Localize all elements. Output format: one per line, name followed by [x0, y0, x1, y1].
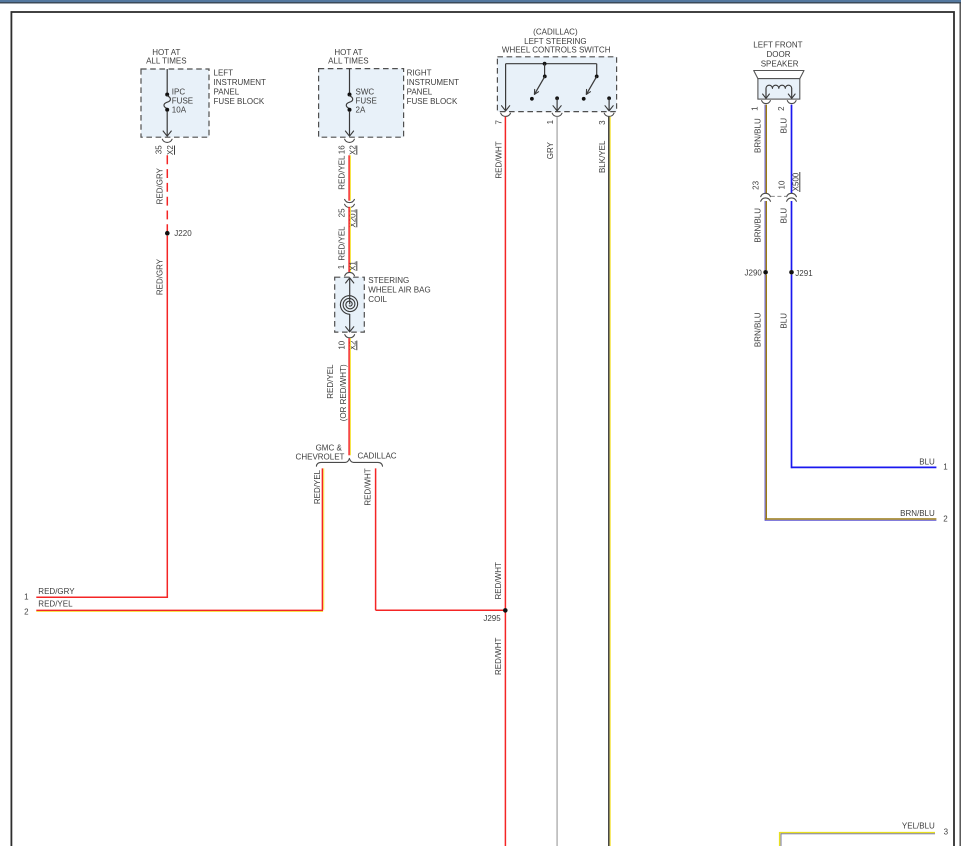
svg-text:ALL TIMES: ALL TIMES	[328, 57, 368, 66]
svg-text:RED/YEL: RED/YEL	[326, 364, 335, 399]
svg-text:IPC: IPC	[172, 88, 186, 97]
arrow into air bag coil box	[346, 278, 354, 283]
switch B blade with arrow	[586, 76, 596, 94]
connector cup above air bag coil box	[345, 272, 355, 275]
wire BRN/BLU segment 1	[764, 105, 766, 194]
svg-text:RED/WHT: RED/WHT	[494, 562, 503, 599]
svg-text:SWC: SWC	[356, 88, 375, 97]
air bag coil box: STEERING WHEEL AIR BAG COIL	[335, 277, 365, 332]
svg-text:2: 2	[24, 608, 29, 617]
speaker voice coil	[766, 85, 792, 88]
arrow out of air bag coil box	[346, 327, 354, 332]
svg-text:RED/YEL: RED/YEL	[338, 155, 347, 190]
wire into fuse F1	[166, 69, 168, 93]
svg-text:BRN/BLU: BRN/BLU	[900, 509, 935, 518]
svg-text:(CADILLAC): (CADILLAC)	[533, 27, 578, 36]
svg-text:GMC &: GMC &	[316, 443, 343, 452]
wire RED/YEL GMC branch vertical	[321, 468, 323, 609]
bus wire inside switch	[506, 63, 597, 65]
svg-text:1: 1	[943, 462, 948, 471]
switch box S1	[497, 57, 616, 112]
wire BLU segment 2	[791, 201, 793, 270]
wire RED/YEL segment 1	[348, 155, 350, 200]
split brace GMC/CADILLAC	[316, 458, 382, 466]
arrow out of switch pin 7	[502, 106, 510, 111]
svg-text:BLU: BLU	[780, 118, 789, 134]
wire RED/YEL segment 2	[348, 207, 350, 272]
fuse F2 SWC FUSE 2A	[348, 93, 352, 97]
coil lead pin 2 with arrow	[791, 88, 793, 97]
right window edge line	[959, 3, 961, 846]
top toolbar bar	[0, 0, 961, 2]
wire BLU segment 1	[791, 105, 793, 194]
svg-text:J291: J291	[795, 269, 813, 278]
fuse block box: LEFT INSTRUMENT PANEL FUSE BLOCK	[141, 69, 209, 137]
wire from fuse to pin 35	[166, 111, 168, 136]
svg-text:CHEVROLET: CHEVROLET	[296, 452, 345, 461]
svg-text:HOT AT: HOT AT	[334, 48, 362, 57]
switch A junction dot on bus	[543, 62, 547, 66]
svg-text:J220: J220	[174, 229, 192, 238]
wire BLU segment 3	[791, 275, 793, 469]
wire RED/YEL (OR RED/WHT) segment	[348, 338, 350, 455]
svg-text:10: 10	[338, 340, 347, 349]
svg-text:RED/GRY: RED/GRY	[38, 587, 75, 596]
svg-text:ALL TIMES: ALL TIMES	[146, 57, 186, 66]
svg-text:DOOR: DOOR	[767, 50, 791, 59]
connector cup below fuse block (right)	[345, 139, 355, 142]
svg-text:16: 16	[338, 145, 347, 154]
junction J295	[503, 608, 508, 613]
svg-text:FUSE: FUSE	[172, 97, 193, 106]
svg-text:35: 35	[154, 145, 163, 154]
switch B contact dot	[582, 97, 586, 101]
wire RED/WHT horizontal to J295	[376, 609, 504, 611]
svg-text:X500: X500	[791, 172, 800, 191]
svg-text:PANEL: PANEL	[407, 88, 433, 97]
svg-text:GRY: GRY	[546, 141, 555, 159]
svg-text:7: 7	[495, 119, 504, 124]
switch A blade with arrow	[534, 76, 544, 94]
svg-text:BRN/BLU: BRN/BLU	[754, 208, 763, 243]
wire BRN/BLU horizontal to net 2	[765, 518, 936, 520]
arrow out of switch pin 3	[605, 106, 613, 111]
svg-text:10: 10	[777, 180, 786, 189]
svg-text:X1: X1	[348, 261, 357, 271]
wire to pin 7	[505, 64, 507, 110]
svg-text:BRN/BLU: BRN/BLU	[754, 312, 763, 347]
svg-text:J295: J295	[483, 614, 501, 623]
arrow out of switch pin 1	[553, 106, 561, 111]
arrow out of fuse block	[163, 131, 171, 136]
svg-text:1: 1	[337, 264, 346, 269]
wire to pin 3	[608, 98, 610, 110]
svg-text:FUSE BLOCK: FUSE BLOCK	[214, 97, 265, 106]
svg-text:RED/YEL: RED/YEL	[38, 600, 73, 609]
svg-text:INSTRUMENT: INSTRUMENT	[407, 78, 460, 87]
connector X500 tie line	[771, 195, 787, 197]
wire to pin 1	[556, 98, 558, 110]
fuse block box: RIGHT INSTRUMENT PANEL FUSE BLOCK	[319, 69, 404, 138]
wire into fuse F2	[349, 69, 351, 93]
wire BLK/YEL from switch pin 3	[608, 117, 610, 846]
svg-text:LEFT: LEFT	[214, 69, 234, 78]
svg-text:X2: X2	[166, 145, 175, 155]
svg-text:2: 2	[777, 106, 786, 111]
svg-text:X2: X2	[348, 145, 357, 155]
svg-text:3: 3	[944, 827, 949, 836]
svg-text:INSTRUMENT: INSTRUMENT	[214, 78, 267, 87]
svg-text:RED/GRY: RED/GRY	[156, 258, 165, 295]
switch A pivot dot	[543, 75, 547, 79]
svg-text:PANEL: PANEL	[214, 88, 240, 97]
svg-text:RIGHT: RIGHT	[407, 69, 432, 78]
wire YEL/BLU horizontal to net 3	[780, 832, 935, 834]
wire RED/GRY horizontal to left edge	[36, 596, 168, 598]
wire RED/WHT from switch pin 7	[504, 117, 506, 846]
connector cups below switch	[501, 113, 511, 116]
svg-text:COIL: COIL	[368, 295, 387, 304]
svg-text:RED/WHT: RED/WHT	[364, 468, 373, 505]
speaker SP1 frame (trapezoid)	[754, 71, 804, 79]
svg-text:1: 1	[24, 593, 29, 602]
wire YEL/BLU from bottom	[779, 832, 781, 846]
svg-text:RED/WHT: RED/WHT	[494, 141, 503, 178]
svg-text:LEFT FRONT: LEFT FRONT	[753, 41, 802, 50]
wire RED/YEL horizontal to left edge	[36, 609, 323, 611]
svg-text:BLU: BLU	[919, 458, 935, 467]
svg-text:RED/GRY: RED/GRY	[156, 167, 165, 204]
fuse F1 IPC FUSE 10A	[165, 93, 169, 97]
svg-text:FUSE BLOCK: FUSE BLOCK	[407, 97, 458, 106]
junction J220	[165, 231, 170, 236]
coil lead pin 1 with arrow	[765, 88, 767, 97]
wire from fuse to pin 16	[349, 111, 351, 136]
in-line connector X500 on BRN/BLU	[761, 193, 771, 196]
switch A stem	[544, 64, 546, 75]
junction J290	[763, 270, 768, 275]
bus corner to switch B	[596, 64, 598, 75]
svg-text:YEL/BLU: YEL/BLU	[902, 821, 935, 830]
svg-text:BLU: BLU	[780, 208, 789, 224]
svg-text:25: 25	[338, 208, 347, 217]
svg-text:HOT AT: HOT AT	[152, 48, 180, 57]
svg-text:1: 1	[751, 106, 760, 111]
svg-text:2: 2	[943, 514, 948, 523]
clockspring coil L1 spiral	[340, 296, 357, 315]
svg-text:J290: J290	[745, 269, 763, 278]
svg-text:1: 1	[546, 119, 555, 124]
in-line connector X500 on BLU	[787, 193, 797, 196]
in-line connector X201	[345, 199, 355, 202]
wire to coil	[349, 278, 351, 305]
connector cup below fuse block	[162, 139, 172, 142]
svg-text:RED/WHT: RED/WHT	[494, 638, 503, 675]
svg-text:RED/YEL: RED/YEL	[338, 226, 347, 261]
svg-text:3: 3	[598, 120, 607, 125]
switch A output contact dot (pin 1)	[555, 96, 559, 100]
wire BLU horizontal to net 1	[792, 466, 937, 468]
svg-text:FUSE: FUSE	[356, 97, 377, 106]
junction J291	[789, 270, 794, 275]
svg-text:(OR RED/WHT): (OR RED/WHT)	[339, 364, 348, 421]
wire from coil to box bottom	[349, 314, 351, 331]
connector cup below air bag coil box	[345, 335, 355, 338]
svg-text:BLK/YEL: BLK/YEL	[598, 140, 607, 173]
connector cups below speaker	[762, 101, 771, 104]
switch B pivot dot	[595, 75, 599, 79]
svg-text:STEERING: STEERING	[368, 276, 409, 285]
speaker SP1 body	[758, 79, 800, 100]
svg-text:23: 23	[751, 180, 760, 189]
svg-text:CADILLAC: CADILLAC	[357, 451, 396, 460]
wire RED/GRY dashed segment	[166, 155, 168, 231]
svg-text:2A: 2A	[356, 105, 366, 114]
switch A contact dot	[530, 97, 534, 101]
svg-text:RED/YEL: RED/YEL	[313, 469, 322, 504]
wire GRY from switch pin 1	[556, 117, 558, 846]
svg-text:10A: 10A	[172, 105, 187, 114]
wire RED/GRY solid segment	[166, 236, 168, 598]
arrow out of fuse block (right)	[345, 131, 353, 136]
wire BRN/BLU segment 3	[764, 275, 766, 521]
wire BRN/BLU segment 2	[764, 201, 766, 270]
svg-text:WHEEL AIR BAG: WHEEL AIR BAG	[368, 286, 430, 295]
svg-text:WHEEL CONTROLS SWITCH: WHEEL CONTROLS SWITCH	[502, 46, 611, 55]
svg-text:BRN/BLU: BRN/BLU	[754, 118, 763, 153]
switch B output contact dot (pin 3)	[607, 96, 611, 100]
svg-text:BLU: BLU	[780, 313, 789, 329]
wire RED/WHT Cadillac branch vertical	[375, 468, 377, 610]
svg-text:SPEAKER: SPEAKER	[761, 59, 799, 68]
